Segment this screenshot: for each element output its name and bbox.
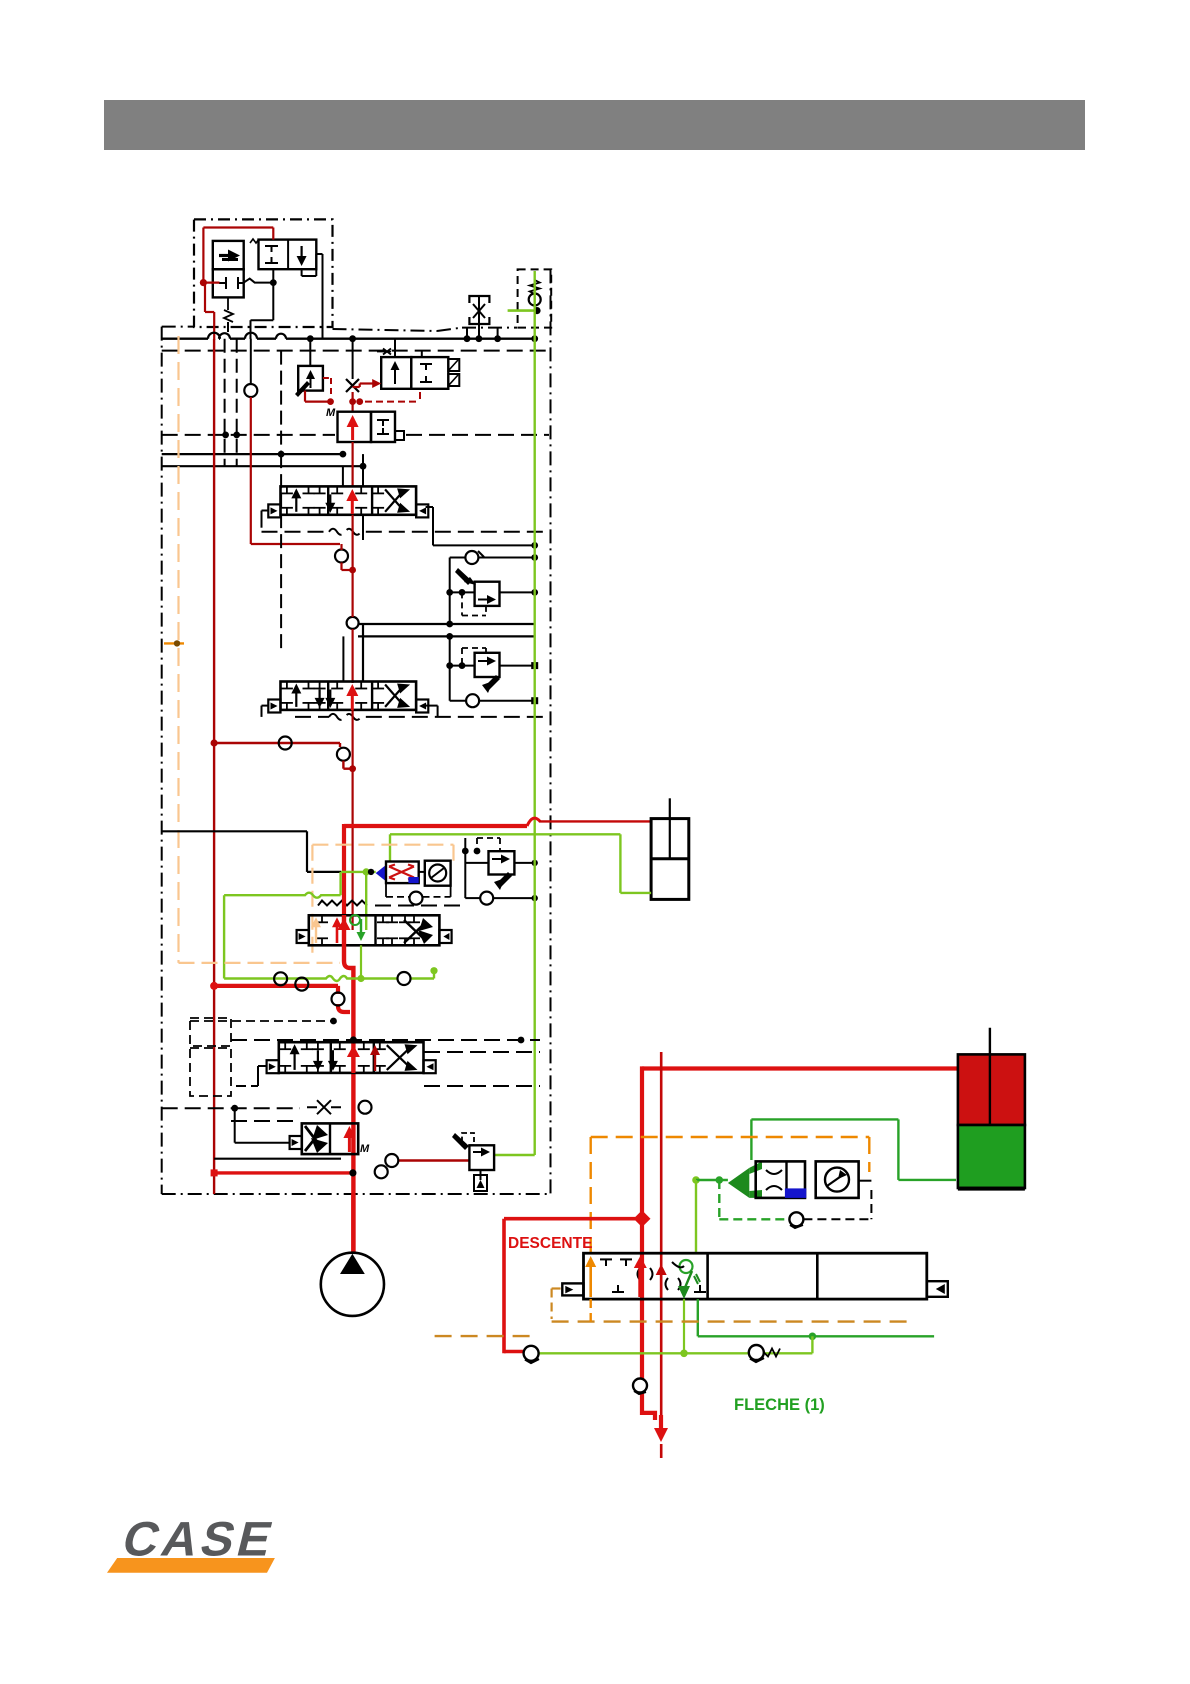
wire green arrow V3 — [360, 919, 362, 934]
compensator spring — [224, 297, 233, 322]
pump P1 — [321, 1253, 384, 1316]
peach box — [312, 844, 453, 846]
check valve — [749, 1345, 764, 1360]
wire dashed — [461, 648, 463, 666]
wire dashed — [476, 838, 478, 851]
pilot supply block boundary — [194, 219, 333, 327]
check valve — [337, 748, 350, 761]
wire red — [340, 544, 342, 550]
directional valve V4 — [279, 1042, 424, 1073]
check valve — [332, 993, 345, 1006]
balance valve BV2 check — [816, 1161, 859, 1198]
descente line — [504, 1217, 642, 1221]
check valve — [465, 551, 478, 564]
wire orange arrow DV1 — [589, 1265, 592, 1297]
bus dashed 1108 — [162, 1107, 300, 1109]
wire green dashed — [718, 1180, 720, 1219]
wire top — [420, 837, 535, 839]
wire green elbow — [494, 1154, 534, 1156]
wire black dashed — [803, 1218, 871, 1220]
check valve spring — [530, 280, 540, 294]
wire green acc — [898, 1179, 956, 1181]
balance valve BV2 tri — [728, 1168, 749, 1198]
accumulator small — [651, 819, 689, 900]
pilot green line — [534, 271, 536, 1155]
wire red — [214, 742, 340, 744]
wire green DV1 out — [683, 1299, 685, 1353]
pilot check valve box — [518, 269, 552, 327]
wire — [450, 591, 475, 593]
tank line dashed 3 — [280, 351, 282, 455]
check valve — [466, 694, 479, 707]
wire green — [390, 833, 620, 835]
wire — [203, 226, 273, 228]
check valve — [789, 1212, 803, 1226]
directional valve V1 — [281, 486, 417, 514]
check valve — [480, 892, 493, 905]
wire — [362, 515, 364, 540]
wire red arrow V4 — [351, 1055, 355, 1073]
directional valve V3 — [309, 915, 440, 945]
peach h963 — [179, 962, 341, 964]
bus T line dashed — [162, 350, 551, 352]
wire red — [342, 761, 344, 769]
supply line pump — [351, 1194, 355, 1254]
bus line 2 — [162, 465, 363, 467]
wire green h978 — [224, 976, 397, 981]
bus P line — [162, 338, 535, 340]
wire h1158 — [214, 1158, 341, 1160]
bus dashed mid — [162, 434, 335, 436]
accumulator ACC1 — [958, 1054, 1025, 1125]
wire green DV2 out — [697, 1299, 699, 1336]
check valve — [633, 1379, 647, 1393]
bus dashed 1120 — [231, 1120, 300, 1122]
wire line 624 — [358, 623, 535, 625]
wire — [419, 871, 425, 873]
balance valve BV1 check box — [425, 861, 451, 886]
pilot relief valve — [259, 240, 317, 270]
throttle X2 — [307, 1100, 341, 1114]
wire red — [304, 391, 306, 402]
wire black — [352, 339, 354, 379]
wire elbow right — [426, 705, 438, 707]
wire — [244, 279, 274, 283]
wire red — [339, 743, 341, 747]
wire — [450, 557, 466, 559]
wire green dot — [692, 1176, 700, 1184]
wire — [262, 510, 269, 512]
ls vertical — [250, 339, 252, 384]
wire — [465, 862, 488, 864]
wire green left — [223, 895, 225, 978]
wire red arrow — [351, 499, 354, 514]
svg-text:M: M — [360, 1143, 370, 1155]
throttle X — [346, 379, 359, 392]
unload valve — [338, 412, 372, 442]
wire — [449, 636, 451, 700]
check valve — [410, 892, 423, 905]
wire dashed — [385, 883, 387, 897]
bus dashed below V1 — [262, 529, 550, 535]
wire — [450, 665, 475, 667]
check valve — [335, 550, 348, 563]
wire stub — [466, 328, 468, 339]
wire — [426, 506, 433, 508]
pilot line orange — [177, 336, 179, 963]
tank line dashed 2 — [236, 339, 238, 467]
prop reducer valve — [298, 366, 323, 391]
dashed left boxes — [190, 1018, 231, 1046]
wire red arrow — [351, 694, 354, 710]
wire red arrow V3 — [342, 928, 346, 944]
relief valve R3 — [489, 851, 515, 874]
flow line green dark — [698, 1335, 934, 1337]
relief valve R4 — [469, 1145, 494, 1170]
green symbols DV1 — [680, 1260, 693, 1273]
solenoid valve — [381, 357, 411, 389]
balance valve BV1 pilot tri — [376, 865, 386, 881]
wire dashed — [461, 592, 463, 615]
wire — [262, 705, 269, 707]
bus dashed below V2 — [295, 714, 549, 720]
bus dashed 1040 — [231, 1039, 540, 1041]
check valve — [385, 1154, 398, 1167]
wire — [342, 466, 344, 486]
wire — [464, 838, 466, 898]
check valve — [524, 1346, 539, 1361]
wire green v — [695, 1180, 697, 1252]
wire green — [433, 971, 435, 979]
wire red — [352, 392, 354, 411]
red supply h986 — [214, 984, 338, 988]
boom supply elbow — [642, 1413, 655, 1420]
balance valve BV2 body — [756, 1161, 805, 1198]
pump compensator valve — [213, 241, 244, 269]
throttle valve — [469, 296, 489, 303]
wire — [465, 897, 480, 899]
wire line 636 — [358, 635, 535, 637]
supply line boom thin — [660, 1052, 663, 1430]
supply line thick — [344, 824, 527, 828]
CASE logo — [117, 1512, 281, 1566]
main block boundary left — [161, 327, 163, 1194]
check valve — [529, 294, 541, 306]
tank symbol — [474, 1175, 487, 1191]
orange circuit box — [591, 1136, 870, 1138]
check valve red line — [347, 617, 359, 629]
green node — [363, 868, 370, 875]
directional valve V2 — [281, 682, 417, 710]
supply line thick v — [342, 824, 346, 917]
main block boundary top — [162, 326, 194, 328]
bus dashed 1086 — [424, 1051, 540, 1053]
wire red dashed — [323, 377, 331, 379]
header bar — [104, 100, 1085, 150]
orange tee — [164, 642, 184, 644]
flow line green light — [523, 1352, 812, 1354]
tank line dashed 4 — [280, 454, 282, 650]
orange dashed low — [435, 1335, 532, 1337]
pressure line center — [352, 442, 354, 487]
svg-text:DESCENTE: DESCENTE — [508, 1235, 592, 1252]
supply line boom — [642, 1066, 958, 1070]
wire red h1173 — [214, 1171, 353, 1174]
check valve — [359, 1101, 372, 1114]
wire — [450, 700, 466, 702]
wire red jog2 — [338, 986, 350, 1012]
wire green down — [365, 872, 367, 930]
svg-text:M: M — [326, 407, 336, 419]
main block boundary right — [550, 269, 552, 1194]
check valve — [274, 972, 287, 985]
directional valve DV1 — [584, 1253, 927, 1299]
wire — [352, 515, 354, 617]
svg-text:FLECHE (1): FLECHE (1) — [734, 1396, 825, 1414]
check valve — [244, 384, 257, 397]
directional valve V5 — [302, 1123, 358, 1154]
wire red h1160 — [398, 1159, 469, 1161]
wire — [231, 1105, 238, 1112]
bus LS line — [162, 453, 343, 455]
wire red dashed — [365, 401, 420, 403]
wire green stub — [508, 309, 535, 312]
pressure line left red — [213, 339, 215, 1194]
wire red arrow V5 — [348, 1136, 351, 1152]
wire — [342, 636, 344, 681]
wire red — [250, 397, 252, 544]
wire red arrow — [351, 425, 354, 440]
tank line dashed 1 — [224, 339, 226, 467]
relief valve R2 — [475, 653, 500, 677]
main block boundary bottom — [162, 1193, 551, 1195]
wire black h831 — [162, 830, 307, 832]
wire red arrows DV1 — [638, 1266, 642, 1297]
wire — [258, 1065, 267, 1067]
relief valve R1 — [475, 582, 500, 606]
supply line thick jog — [344, 915, 353, 1252]
check valve — [279, 737, 292, 750]
bus dashed 897 — [318, 901, 367, 906]
balance valve BV1 body — [386, 862, 419, 884]
check valve — [398, 972, 411, 985]
